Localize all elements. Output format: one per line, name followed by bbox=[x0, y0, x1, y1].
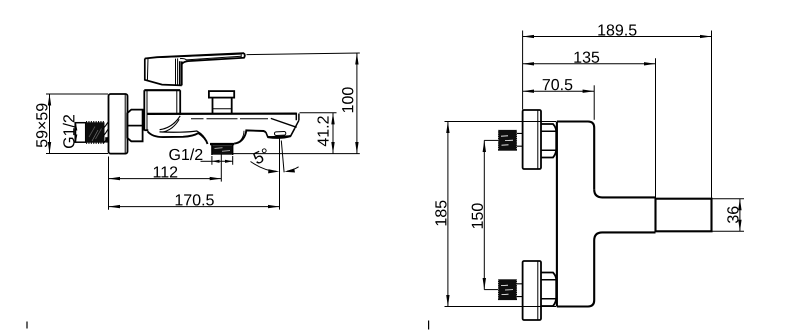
page tick middle bbox=[428, 321, 430, 330]
spout underside bbox=[148, 116, 266, 144]
dimension 170.5 bbox=[109, 206, 280, 208]
handle skirt / base bbox=[145, 58, 182, 85]
spout top edge bbox=[147, 112, 296, 115]
dimension 70.5 bbox=[523, 85, 595, 120]
bottom connection: thread bbox=[498, 279, 517, 300]
label 112 bbox=[154, 166, 178, 177]
label G1/2 wall bbox=[63, 115, 75, 148]
hex nut (side) bbox=[127, 110, 142, 142]
dimension 59x59 bbox=[46, 94, 108, 154]
label 5 deg bbox=[252, 148, 270, 165]
body cartridge block bbox=[144, 90, 180, 130]
outlet centerline down bbox=[220, 154, 222, 182]
label 135 bbox=[574, 52, 599, 63]
label 150 bbox=[472, 203, 483, 228]
bottom connection: stub lines bbox=[517, 284, 523, 297]
escutcheon plate 59x59 (side) bbox=[109, 94, 128, 154]
top connection: escutcheon bbox=[523, 110, 541, 169]
dimension 189.5 bbox=[523, 31, 712, 199]
label 185 bbox=[435, 201, 446, 226]
page tick left bbox=[26, 322, 28, 329]
label 59x59 bbox=[36, 104, 47, 148]
bottom connection: escutcheon bbox=[523, 261, 541, 320]
dimension 100 bbox=[247, 53, 360, 154]
spout top inner line bbox=[191, 118, 268, 120]
dimension 185 bbox=[445, 122, 557, 307]
label G1/2 wall (rotated) + leader bbox=[75, 123, 77, 142]
wall nipple (plain section) bbox=[75, 123, 86, 143]
bottom connection: hex nut bbox=[541, 273, 556, 307]
top connection: stub lines bbox=[517, 133, 523, 146]
dimension 135 bbox=[523, 58, 656, 198]
aerator centerline down bbox=[279, 138, 281, 210]
spout end square 36 bbox=[656, 199, 712, 232]
5 degree slant line bbox=[281, 141, 284, 173]
dimension 150 bbox=[484, 140, 498, 289]
dimension 41.2 bbox=[233, 113, 360, 154]
label 70.5 bbox=[543, 79, 573, 90]
dimension 36 bbox=[712, 199, 744, 232]
top connection: thread bbox=[498, 130, 517, 151]
dimension G1/2 outlet bbox=[201, 156, 233, 165]
5 degree arc with arrows bbox=[251, 162, 299, 174]
spout arm bbox=[594, 189, 655, 240]
label 170.5 bbox=[176, 194, 214, 205]
aerator at tip bbox=[266, 128, 295, 138]
outlet G1/2 (threaded, hatched) bbox=[210, 144, 234, 155]
label G1/2 outlet bbox=[169, 148, 202, 160]
handle lever bbox=[145, 53, 245, 64]
union cone slashes bbox=[103, 122, 109, 143]
top connection: hex nut bbox=[541, 124, 556, 158]
dimension 112 bbox=[109, 157, 222, 210]
body slab bbox=[557, 122, 594, 307]
label 100 bbox=[342, 87, 353, 112]
label 36 bbox=[727, 207, 738, 223]
diverter knob bbox=[209, 91, 234, 114]
label 41.2 bbox=[317, 116, 328, 146]
spout tip end bbox=[271, 113, 299, 129]
wall nipple thread G1/2 (hatched dark) bbox=[86, 122, 109, 143]
label 189.5 bbox=[598, 24, 636, 35]
